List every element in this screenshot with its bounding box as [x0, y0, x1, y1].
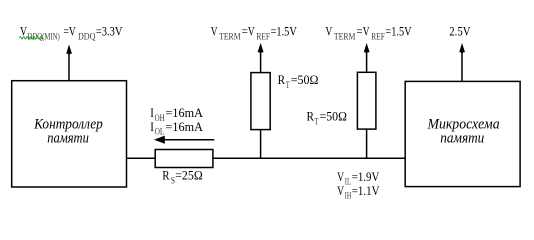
svg-text:=1.1V: =1.1V — [352, 183, 380, 198]
svg-text:I: I — [150, 119, 154, 134]
svg-text:R: R — [307, 109, 315, 124]
svg-text:=3.3V: =3.3V — [96, 24, 123, 39]
svg-text:IH: IH — [345, 191, 352, 201]
svg-text:памяти: памяти — [47, 131, 89, 147]
svg-text:REF: REF — [256, 31, 270, 41]
svg-text:=V: =V — [64, 24, 77, 39]
svg-text:DDQ: DDQ — [78, 31, 96, 41]
svg-text:2.5V: 2.5V — [449, 23, 471, 38]
grammar squiggle under VDDQ(MIN — [20, 37, 44, 39]
arrowhead VTERM over RT1 — [258, 43, 264, 53]
svg-text:V: V — [326, 24, 333, 39]
svg-text:T: T — [315, 116, 319, 126]
wire: controller to RS — [127, 157, 156, 159]
svg-text:V: V — [248, 24, 255, 39]
wire: RT1 top to VTERM arrow — [260, 52, 262, 73]
svg-text:R: R — [278, 72, 286, 87]
arrowhead VDDQ over controller — [66, 45, 72, 55]
svg-text:=1.5V: =1.5V — [271, 24, 298, 39]
svg-text:TERM: TERM — [219, 31, 241, 41]
svg-text:DDQ(MIN): DDQ(MIN) — [28, 31, 60, 41]
wire: memory chip top to 2.5V arrow — [461, 52, 463, 81]
svg-text:=50Ω: =50Ω — [291, 72, 319, 87]
svg-text:V: V — [337, 169, 344, 184]
wire: RT2 bottom to bus — [366, 129, 368, 158]
resistor RT2 body — [357, 72, 376, 129]
memory chip box U2 — [405, 81, 520, 186]
svg-text:OL: OL — [155, 127, 165, 137]
resistor RT1 body — [251, 73, 270, 130]
svg-text:OH: OH — [155, 113, 165, 123]
svg-text:IL: IL — [345, 177, 351, 187]
arrowhead VTERM over RT2 — [364, 43, 370, 53]
svg-text:=25Ω: =25Ω — [175, 168, 203, 183]
wire: RT2 top to VTERM arrow — [366, 51, 368, 72]
svg-text:памяти: памяти — [440, 131, 484, 147]
wire: RS to memory chip (bus) — [213, 157, 405, 159]
svg-text:V: V — [337, 183, 344, 198]
svg-text:=16mA: =16mA — [166, 119, 204, 134]
wire: RT1 bottom to bus — [260, 130, 262, 159]
svg-text:V: V — [363, 24, 370, 39]
svg-text:R: R — [162, 168, 170, 183]
arrowhead 2.5V over memory chip — [459, 43, 465, 53]
svg-text:TERM: TERM — [334, 31, 356, 41]
svg-text:REF: REF — [371, 31, 385, 41]
wire: controller top to VDDQ arrow — [68, 53, 70, 81]
svg-text:=1.9V: =1.9V — [352, 169, 380, 184]
svg-text:=50Ω: =50Ω — [320, 109, 347, 124]
svg-text:V: V — [211, 24, 218, 39]
current direction arrow line IOH/IOL — [163, 139, 214, 141]
memory controller box U1 — [12, 81, 127, 187]
svg-text:T: T — [286, 80, 290, 90]
resistor RS body — [155, 150, 213, 168]
svg-text:=1.5V: =1.5V — [385, 24, 412, 39]
current direction arrowhead (points left) — [154, 136, 165, 144]
